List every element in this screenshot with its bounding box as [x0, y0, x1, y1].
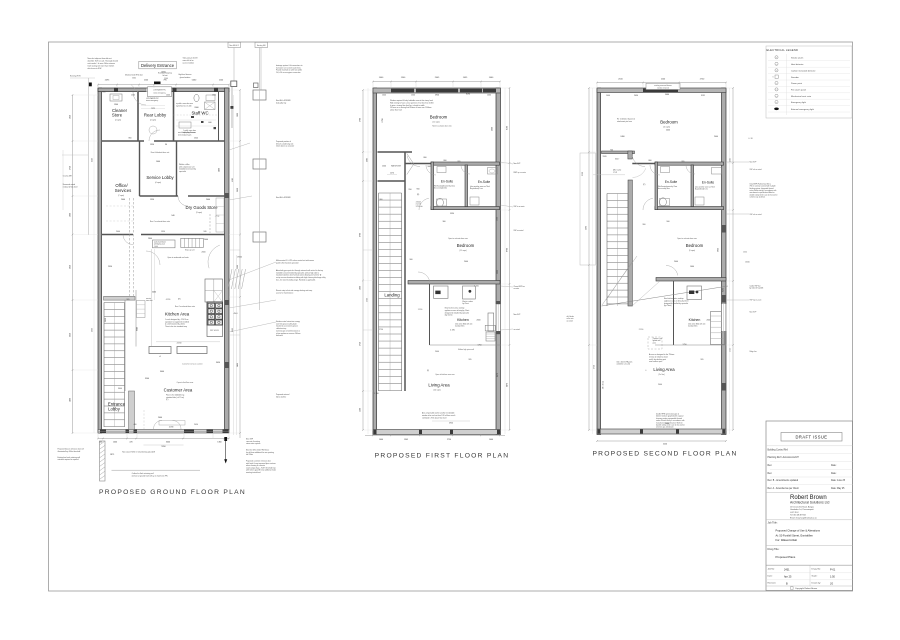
svg-text:8190: 8190 [466, 93, 470, 95]
svg-text:in public razor dwn area: in public razor dwn area [176, 103, 193, 105]
svg-text:Copyright Robert Brown: Copyright Robert Brown [795, 587, 818, 590]
svg-text:Rev:: Rev: [768, 465, 773, 467]
svg-text:Bedroom: Bedroom [457, 243, 475, 248]
svg-text:HD: HD [776, 63, 778, 65]
svg-text:Rear Lobby: Rear Lobby [144, 113, 167, 118]
svg-text:1040: 1040 [379, 439, 383, 441]
kitchen 4190 line [156, 341, 220, 343]
svg-text:900: 900 [428, 166, 431, 168]
svg-text:SD: SD [776, 57, 778, 59]
svg-text:Date: June 25: Date: June 25 [831, 479, 846, 482]
first floor outer walls [373, 88, 377, 435]
svg-text:Living Area: Living Area [428, 383, 450, 388]
svg-text:Bay defined) 5 ms: Bay defined) 5 ms [470, 188, 483, 190]
svg-text:(2x 9m): (2x 9m) [658, 374, 664, 376]
svg-text:Scale:: Scale: [812, 576, 818, 578]
svg-text:PROPOSED SECOND FLOOR PLAN: PROPOSED SECOND FLOOR PLAN [592, 451, 737, 458]
svg-text:Service Lobby: Service Lobby [146, 175, 174, 180]
ground left outer guide lines [93, 95, 95, 433]
svg-text:600: 600 [208, 122, 211, 124]
second floor left dimension stack [588, 88, 590, 430]
revision rows [766, 445, 853, 447]
svg-text:1400: 1400 [70, 398, 72, 402]
ground floor top dimension row [98, 84, 229, 86]
svg-text:At: 50 Fonthill Street, Ennisk: At: 50 Fonthill Street, Enniskillen [776, 533, 814, 537]
svg-text:17 W: 17 W [613, 172, 617, 174]
title block outline [766, 421, 853, 591]
svg-text:Open to first floor over: Open to first floor over [177, 381, 194, 384]
second floor right wall window [721, 304, 726, 331]
svg-text:Sounder: Sounder [791, 76, 799, 79]
svg-text:90: 90 [165, 144, 167, 146]
svg-text:955: 955 [458, 161, 461, 163]
svg-text:2950: 2950 [232, 328, 234, 332]
svg-text:PROPOSED GROUND FLOOR PLAN: PROPOSED GROUND FLOOR PLAN [99, 489, 246, 496]
draft issue box [781, 433, 842, 442]
svg-text:5060: 5060 [586, 226, 588, 230]
svg-text:1000: 1000 [113, 441, 117, 443]
svg-text:4500: 4500 [232, 178, 234, 182]
svg-text:Then to be site standard amp: Then to be site standard amp [165, 325, 187, 328]
svg-text:New SVP: New SVP [246, 439, 253, 441]
svg-text:ELECTRICAL LEGEND: ELECTRICAL LEGEND [767, 48, 799, 52]
dry goods shelving [216, 198, 224, 232]
dimension guide stubs bottom rows [97, 433, 99, 439]
first floor top dimension row [373, 81, 500, 83]
svg-text:+ Tap: + Tap [215, 216, 219, 218]
svg-text:Planning Ref: LA1xxxxxxxx/AIT: Planning Ref: LA1xxxxxxxx/AIT [768, 456, 800, 459]
svg-text:Bay defined) 5 ms: Bay defined) 5 ms [695, 189, 708, 191]
svg-text:CM: CM [776, 70, 778, 72]
svg-text:Proposed Change of Use & Alter: Proposed Change of Use & Alterations [776, 529, 821, 533]
svg-text:Rev: B - Amendments updated: Rev: B - Amendments updated [768, 479, 799, 482]
svg-text:8470: 8470 [497, 373, 499, 377]
svg-text:2000: 2000 [206, 199, 210, 201]
svg-text:6 / 50: 6 / 50 [749, 138, 753, 140]
ground floor bottom dimension row [98, 438, 229, 440]
svg-text:2750: 2750 [447, 439, 451, 441]
svg-text:2400: 2400 [219, 168, 221, 172]
svg-text:medical & flow level: medical & flow level [63, 186, 78, 188]
svg-text:(11 sqm): (11 sqm) [433, 122, 440, 124]
svg-text:Lobby: Lobby [108, 407, 121, 412]
ground floor delivery door threshold [154, 82, 161, 85]
step up unit [181, 238, 204, 247]
svg-text:(R): (R) [178, 299, 181, 301]
first floor rear window wall [373, 88, 501, 93]
svg-text:5750: 5750 [594, 365, 596, 369]
svg-text:1800: 1800 [367, 158, 369, 162]
svg-text:External emergency light: External emergency light [791, 108, 814, 111]
second floor bedroom2/kitchen divider [656, 278, 726, 282]
svg-text:1 public razor dwn: 1 public razor dwn [183, 130, 196, 132]
gp extra leader diagonals [229, 143, 250, 150]
svg-text:1270: 1270 [390, 173, 394, 175]
svg-text:2440: 2440 [714, 136, 718, 138]
svg-text:New SVP: New SVP [514, 163, 521, 165]
kitchen wash basin unit [153, 240, 176, 248]
svg-text:9040: 9040 [160, 371, 164, 373]
svg-text:access window: access window [183, 63, 195, 65]
first floor bottom dimension row [365, 434, 505, 436]
svg-text:High level obscure: High level obscure [178, 74, 191, 76]
svg-text:3650: 3650 [70, 333, 72, 337]
svg-text:(W) / same: (W) / same [613, 170, 621, 172]
svg-text:Fire alarm panel: Fire alarm panel [791, 89, 807, 92]
svg-text:(3 sqm): (3 sqm) [196, 212, 202, 214]
svg-text:5460: 5460 [665, 94, 669, 96]
ground floor rear lobby detail [148, 87, 172, 97]
svg-text:Smoke alarm: Smoke alarm [791, 57, 804, 60]
first floor kitchen [434, 286, 449, 298]
svg-text:2340: 2340 [194, 138, 198, 140]
svg-text:P-01: P-01 [830, 569, 836, 572]
svg-text:5460: 5460 [152, 292, 156, 294]
svg-text:1660: 1660 [690, 266, 694, 268]
svg-text:(24 sqm): (24 sqm) [433, 390, 440, 392]
svg-text:1,040: 1,040 [154, 246, 158, 248]
fp top-left guide [367, 88, 369, 434]
svg-text:2000: 2000 [194, 107, 198, 109]
svg-text:1500: 1500 [131, 95, 135, 97]
svg-text:1800: 1800 [730, 158, 732, 162]
svg-text:2000: 2000 [116, 231, 120, 233]
rear lobby door swings [133, 92, 146, 105]
svg-text:•: • [646, 369, 647, 372]
svg-text:Mechanical vent. axia: Mechanical vent. axia [791, 95, 812, 98]
svg-text:Dry Goods Store: Dry Goods Store [185, 205, 218, 210]
svg-text:service: service [146, 298, 151, 300]
svg-text:300: 300 [443, 221, 446, 223]
svg-text:New MH x 828 FBR: New MH x 828 FBR [276, 197, 291, 199]
svg-text:2000: 2000 [464, 261, 468, 263]
svg-text:960: 960 [380, 199, 383, 201]
svg-text:Date: May 25: Date: May 25 [831, 487, 845, 490]
staff wc fixtures [194, 94, 199, 101]
svg-text:2950: 2950 [92, 328, 94, 332]
svg-text:800: 800 [424, 157, 427, 159]
svg-text:2400: 2400 [204, 239, 208, 241]
second floor rear window wall [597, 88, 726, 93]
svg-text:3131: 3131 [701, 95, 705, 97]
svg-text:1875: 1875 [110, 454, 114, 456]
svg-text:1500: 1500 [411, 95, 415, 97]
dashed service duct lines [129, 198, 131, 296]
svg-text:Services: Services [115, 188, 131, 193]
svg-text:JG: JG [830, 583, 833, 586]
svg-text:2790: 2790 [382, 118, 384, 122]
svg-text:2750: 2750 [379, 329, 383, 331]
svg-text:2440: 2440 [158, 417, 162, 419]
svg-text:4 150: 4 150 [474, 286, 479, 288]
ground plan right dimension stack [239, 90, 241, 438]
staff wc extra fixtures [206, 95, 215, 101]
svg-text:Staff WC: Staff WC [191, 111, 208, 116]
svg-text:8190: 8190 [507, 126, 509, 130]
svg-text:2490: 2490 [634, 95, 638, 97]
svg-text:PROPOSED FIRST FLOOR PLAN: PROPOSED FIRST FLOOR PLAN [375, 452, 510, 459]
svg-text:6790: 6790 [360, 233, 362, 237]
svg-text:5000: 5000 [497, 270, 499, 274]
svg-text:(4 sqm): (4 sqm) [155, 182, 161, 184]
svg-text:6470: 6470 [507, 383, 509, 387]
svg-text:which area to N-W: which area to N-W [88, 67, 102, 70]
svg-text:2 150: 2 150 [639, 329, 643, 331]
svg-text:(P): (P) [643, 184, 646, 186]
svg-text:3000: 3000 [166, 441, 170, 443]
external ramp hatch right of kitchen [228, 269, 232, 289]
svg-text:5360: 5360 [132, 77, 136, 79]
svg-text:2000: 2000 [707, 320, 711, 322]
svg-text:New 2 overhead door units: New 2 overhead door units [175, 305, 195, 308]
svg-text:5950: 5950 [161, 446, 165, 448]
svg-text:Date:: Date: [831, 472, 837, 475]
svg-text:En-Suite: En-Suite [665, 180, 677, 184]
svg-text:Rev:: Rev: [768, 473, 773, 475]
svg-text:1750: 1750 [478, 344, 482, 346]
svg-text:Store: Store [112, 113, 123, 118]
svg-text:1350: 1350 [161, 231, 165, 233]
second floor interior walls [602, 151, 635, 154]
prep counter above cooker [205, 279, 223, 302]
svg-text:1100: 1100 [164, 78, 168, 80]
svg-text:1750: 1750 [683, 344, 687, 346]
svg-text:2500: 2500 [237, 265, 239, 269]
first floor fridge units [488, 313, 494, 331]
svg-text:Bedroom: Bedroom [430, 115, 448, 120]
svg-text:3650: 3650 [105, 318, 107, 322]
sp guides [592, 88, 594, 434]
svg-text:Apr 25: Apr 25 [784, 576, 792, 579]
kitchen left shelf strip [137, 301, 146, 318]
svg-text:800: 800 [444, 160, 447, 162]
second floor dormer label [646, 83, 680, 89]
svg-text:905: 905 [127, 299, 130, 301]
second floor right dimension stack [732, 88, 734, 430]
svg-text:New MH & IC: New MH & IC [229, 45, 240, 47]
rwp box symbol [231, 81, 237, 87]
first floor en-suite walls [431, 162, 500, 165]
svg-text:Step up unit: Step up unit [185, 249, 195, 252]
svg-text:3650: 3650 [237, 188, 239, 192]
svg-text:DRAFT ISSUE: DRAFT ISSUE [796, 435, 828, 440]
svg-text:schemes spc & demon: schemes spc & demon [750, 196, 766, 198]
svg-text:1400: 1400 [156, 161, 160, 163]
svg-text:4 190: 4 190 [166, 299, 170, 301]
svg-text:Existing HGV: Existing HGV [70, 75, 81, 78]
second floor right wall piers [722, 225, 727, 233]
svg-text:Job No:: Job No: [768, 569, 776, 571]
svg-text:8460: 8460 [723, 288, 725, 292]
second floor top dimension row [597, 82, 726, 84]
sheet border frame [49, 42, 853, 591]
second floor front window wall [597, 429, 726, 434]
svg-text:2130: 2130 [582, 172, 584, 176]
svg-text:690: 690 [103, 92, 106, 94]
svg-text:Closed SVP bar: Closed SVP bar [514, 286, 526, 288]
svg-text:Delivery Entrance: Delivery Entrance [141, 63, 175, 68]
svg-text:(4 sqm): (4 sqm) [150, 120, 156, 122]
svg-text:5950: 5950 [449, 423, 453, 425]
svg-text:2000: 2000 [477, 320, 481, 322]
svg-text:1000: 1000 [166, 95, 170, 97]
svg-text:New SVP: New SVP [750, 162, 757, 164]
svg-text:Drwg Title:: Drwg Title: [768, 548, 780, 551]
entrance lobby wall [129, 391, 135, 430]
legend rows [786, 54, 788, 115]
staff wc dark marks [191, 116, 194, 118]
svg-text:955: 955 [682, 161, 685, 163]
second floor roofline diagonal [602, 286, 729, 306]
svg-text:PP: PP [776, 83, 778, 85]
svg-text:1800: 1800 [360, 286, 362, 290]
svg-text:9040: 9040 [137, 327, 139, 331]
svg-text:New SVP: New SVP [750, 312, 757, 314]
ground floor plan outer walls [98, 88, 102, 433]
second floor kitchen [687, 286, 702, 300]
svg-text:wash basin plug & comm: wash basin plug & comm [178, 132, 196, 134]
svg-text:9790: 9790 [507, 248, 509, 252]
svg-text:1040: 1040 [606, 95, 610, 97]
svg-text:800: 800 [649, 160, 652, 162]
svg-text:Drwg. No:: Drwg. No: [812, 568, 822, 571]
title block data grid [809, 565, 811, 586]
svg-text:MV: MV [776, 95, 778, 97]
svg-text:1430: 1430 [151, 108, 155, 110]
svg-text:For: Waleed Arbab: For: Waleed Arbab [776, 538, 798, 542]
svg-text:Drawn by:: Drawn by: [812, 582, 822, 585]
svg-text:1430: 1430 [92, 158, 94, 162]
svg-text:glazed window: glazed window [180, 77, 191, 79]
svg-text:1350: 1350 [150, 144, 154, 146]
svg-text:1900: 1900 [70, 213, 72, 217]
svg-text:Tel: 016 48 487744: Tel: 016 48 487744 [790, 515, 806, 517]
svg-text:Architectural Solutions Ltd: Architectural Solutions Ltd [790, 500, 830, 504]
svg-text:19300: 19300 [237, 257, 242, 259]
side dim guide stubs [73, 94, 99, 96]
svg-text:New & blanked door unit: New & blanked door unit [151, 151, 170, 154]
svg-text:1040: 1040 [382, 95, 386, 97]
svg-text:Landing: Landing [384, 293, 400, 298]
gp right wall piers [225, 300, 229, 305]
svg-text:1950: 1950 [70, 115, 72, 119]
dimension guide stubs top rows [97, 85, 99, 89]
svg-text:1360: 1360 [212, 95, 216, 97]
svg-text:(F): (F) [427, 370, 430, 372]
svg-text:1905: 1905 [404, 439, 408, 441]
svg-text:3500: 3500 [145, 378, 149, 380]
svg-text:Proposed Plans: Proposed Plans [776, 555, 796, 559]
svg-text:2400: 2400 [666, 130, 670, 132]
kitchen cooker range [207, 302, 223, 325]
svg-text:1 150: 1 150 [418, 309, 422, 311]
sp extra diagonals near stairs [606, 262, 632, 300]
svg-text:Building Control Ref:: Building Control Ref: [768, 448, 789, 451]
svg-text:4 190: 4 190 [177, 343, 182, 345]
svg-text:960: 960 [643, 224, 646, 226]
svg-text:2750: 2750 [70, 166, 72, 170]
svg-text:10000: 10000 [745, 262, 750, 264]
svg-text:1360: 1360 [217, 441, 221, 443]
svg-text:5400: 5400 [237, 363, 239, 367]
ground floor stairs [103, 303, 105, 428]
svg-text:Date:: Date: [831, 464, 837, 467]
svg-text:1500: 1500 [360, 408, 362, 412]
svg-text:Open to kitchen area over: Open to kitchen area over [435, 373, 455, 376]
svg-text:DRY HOOD: DRY HOOD [210, 330, 220, 332]
svg-text:2000: 2000 [202, 251, 206, 253]
svg-text:5950: 5950 [435, 94, 439, 96]
svg-text:(11 sqm): (11 sqm) [460, 250, 467, 252]
svg-text:wash-hand basin: wash-hand basin [154, 242, 166, 244]
svg-text:2790: 2790 [360, 118, 362, 122]
svg-text:New MH x 828 FBR: New MH x 828 FBR [276, 100, 291, 102]
svg-text:En-Suite: En-Suite [702, 181, 714, 185]
svg-text:2431: 2431 [784, 569, 790, 572]
ground right wall outer guide lines [233, 95, 235, 435]
leader lines to right notes [229, 262, 276, 280]
customer entrance door swing [154, 421, 163, 430]
svg-text:2950: 2950 [70, 265, 72, 269]
svg-text:1500: 1500 [497, 217, 499, 221]
svg-text:zone: zone [653, 342, 657, 344]
svg-text:New SVP: New SVP [514, 314, 521, 316]
second floor stairs [606, 194, 608, 307]
svg-text:1500: 1500 [382, 165, 386, 167]
svg-text:Chantry MH: Chantry MH [63, 175, 73, 178]
svg-text:Kitchen: Kitchen [457, 318, 469, 322]
svg-text:1900: 1900 [237, 113, 239, 117]
svg-text:940: 940 [171, 215, 174, 217]
svg-text:Thermo is up: Thermo is up [653, 338, 662, 340]
svg-text:350 /: 350 / [615, 159, 620, 161]
svg-text:950: 950 [409, 189, 412, 191]
servery counter [149, 347, 171, 354]
svg-text:Open to activate door over: Open to activate door over [677, 237, 697, 240]
svg-text:2750: 2750 [360, 342, 362, 346]
svg-text:5250: 5250 [663, 444, 667, 446]
svg-text:860: 860 [129, 138, 132, 140]
electrical legend box [766, 46, 852, 118]
flank wall note with underline [112, 469, 201, 471]
svg-text:Emergency light: Emergency light [791, 101, 806, 104]
svg-text:2000: 2000 [121, 199, 125, 201]
svg-text:900: 900 [417, 188, 420, 190]
hatched pier below plan [100, 441, 106, 481]
svg-text:2000: 2000 [674, 261, 678, 263]
svg-text:Date:: Date: [768, 575, 773, 578]
svg-text:460: 460 [134, 424, 137, 426]
svg-text:2950: 2950 [108, 266, 112, 268]
svg-text:940: 940 [204, 231, 207, 233]
svg-text:Llandudno Jct, Penmaenpott: Llandudno Jct, Penmaenpott [790, 508, 814, 511]
svg-text:1350: 1350 [150, 199, 154, 201]
svg-text:Carbon monoxide detector: Carbon monoxide detector [791, 70, 816, 73]
first floor right wall window [496, 304, 501, 331]
svg-text:(4 sqm): (4 sqm) [115, 120, 121, 122]
first floor front window wall [373, 430, 501, 435]
svg-text:Customer Area: Customer Area [164, 388, 193, 393]
svg-text:En-Suite: En-Suite [441, 180, 453, 184]
svg-text:S: S [773, 76, 774, 78]
svg-text:specialist: specialist [179, 170, 186, 173]
second floor bottom dimension row [597, 440, 726, 442]
svg-text:En-Suite: En-Suite [478, 180, 490, 184]
delivery entrance label [139, 61, 177, 69]
svg-text:1520: 1520 [743, 252, 747, 254]
svg-text:Open to underside roof units: Open to underside roof units [167, 256, 188, 259]
ground floor interior partition walls [102, 140, 145, 142]
